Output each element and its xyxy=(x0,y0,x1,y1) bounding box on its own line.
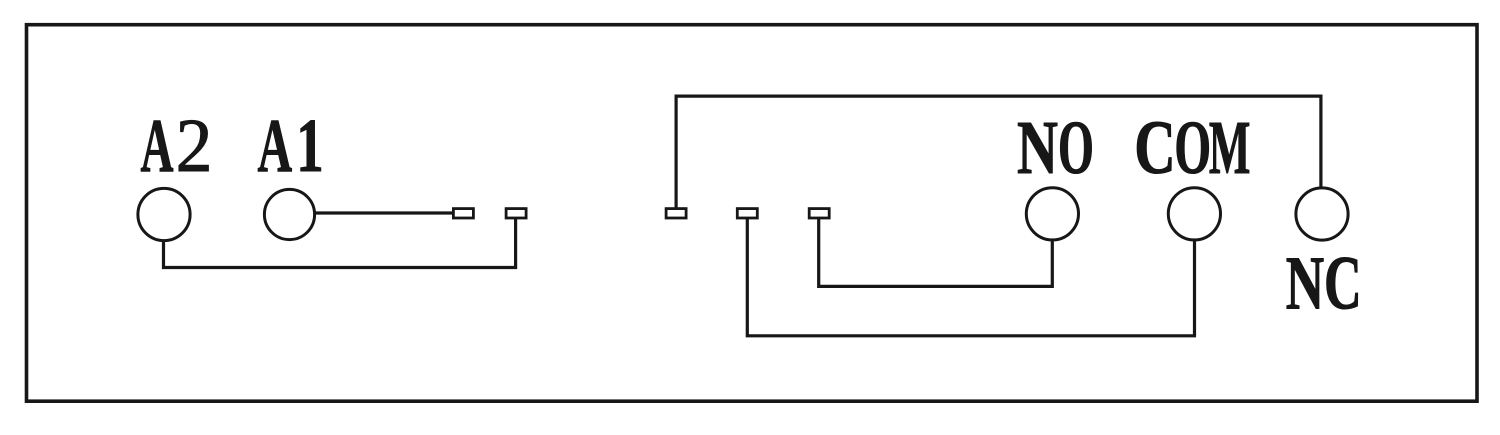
wire P2 to A2 xyxy=(164,219,516,268)
svg-text:O: O xyxy=(1174,106,1211,190)
svg-text:N: N xyxy=(1017,106,1058,190)
svg-text:C: C xyxy=(1134,106,1175,191)
pin pad P5 xyxy=(809,209,829,218)
svg-text:A: A xyxy=(258,103,293,188)
label COM xyxy=(1134,106,1250,191)
contact terminal NC xyxy=(1296,188,1348,240)
pin pad P3 xyxy=(666,209,686,218)
svg-text:M: M xyxy=(1209,107,1251,190)
pin pad P2 xyxy=(506,209,526,218)
contact terminal NO xyxy=(1026,188,1078,240)
contact terminal COM xyxy=(1168,188,1220,240)
wire P4 to COM xyxy=(747,219,1194,336)
label NC xyxy=(1286,242,1362,326)
label A2 xyxy=(141,103,213,188)
pin pad P4 xyxy=(737,209,757,218)
svg-text:C: C xyxy=(1324,242,1362,326)
svg-text:A: A xyxy=(141,103,174,188)
pin pad P1 xyxy=(453,209,473,218)
coil terminal A2 xyxy=(138,188,190,240)
coil terminal A1 xyxy=(264,189,314,239)
label NO xyxy=(1017,106,1094,191)
svg-text:N: N xyxy=(1286,243,1324,326)
wire A1 to pin xyxy=(315,211,453,214)
wire P5 to NO xyxy=(819,219,1053,287)
svg-text:O: O xyxy=(1058,106,1094,191)
svg-text:2: 2 xyxy=(176,104,213,188)
wire top loop P3 to NC xyxy=(676,96,1321,208)
label A1 xyxy=(258,103,324,188)
svg-text:1: 1 xyxy=(296,104,323,188)
